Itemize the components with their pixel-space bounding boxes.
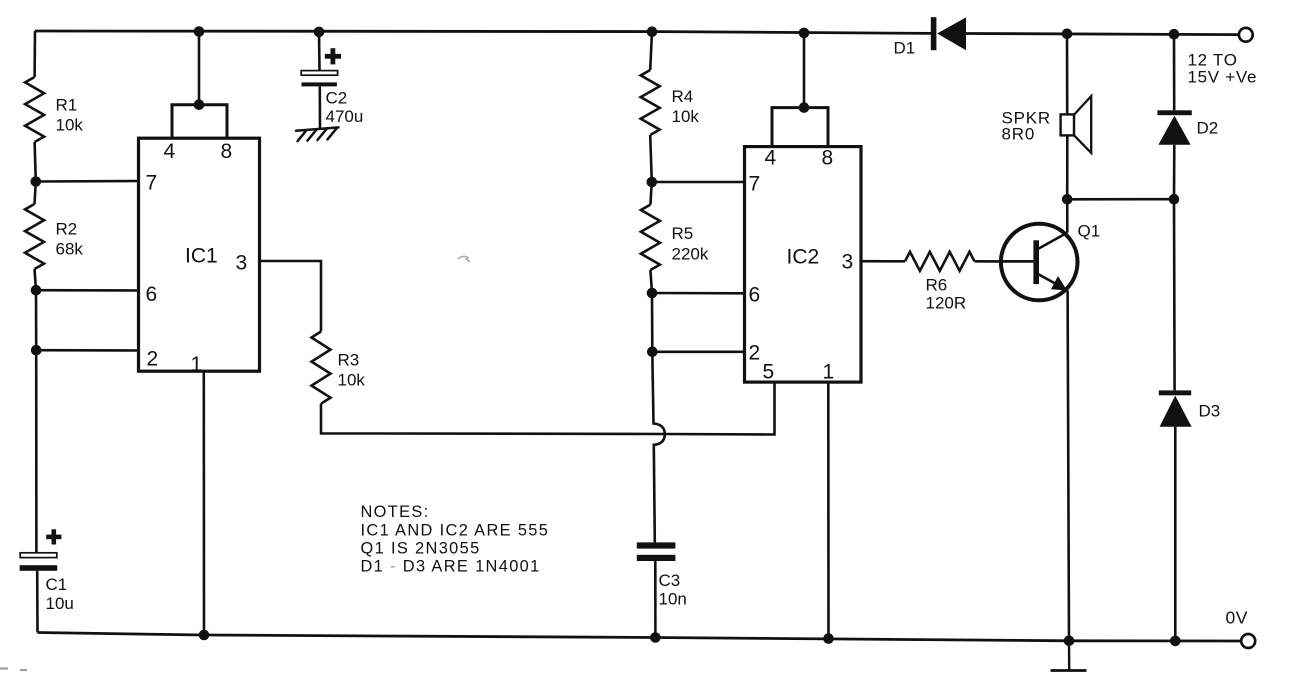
node junction IC2 bridge: [799, 102, 810, 113]
wire IC1 pin 3 output: [260, 261, 322, 332]
diode D2 (1N4001): [1157, 110, 1191, 144]
wire speaker to collector node: [1066, 136, 1069, 200]
wire IC2 pin 7: [652, 181, 745, 184]
svg-text:4: 4: [765, 147, 777, 170]
wire collector node to D2 node: [1067, 198, 1174, 201]
wire Q1 collector up: [1066, 199, 1069, 232]
wire rail to R4: [650, 32, 652, 70]
wire top supply rail (right of D1): [966, 34, 1239, 35]
svg-text:10u: 10u: [46, 594, 74, 613]
svg-text:C1: C1: [46, 575, 68, 594]
wire node pin2 down to C1: [35, 350, 38, 553]
wire IC1 pin 2: [36, 349, 139, 352]
svg-text:10n: 10n: [659, 590, 687, 609]
node junction top rail / R4: [647, 26, 658, 37]
wire top rail to IC2 bridge: [803, 33, 806, 108]
wire IC1 pin 7: [36, 180, 140, 183]
node junction D2 / wire: [1169, 194, 1180, 205]
wire IC1 pins 4-8 bridge: [172, 105, 227, 139]
svg-text:7: 7: [749, 173, 761, 196]
svg-text:2: 2: [749, 342, 761, 365]
transistor Q1 base lead: [1001, 260, 1033, 263]
svg-text:7: 7: [146, 172, 158, 195]
svg-text:IC1 AND IC2 ARE 555: IC1 AND IC2 ARE 555: [361, 522, 550, 540]
resistor R4: [641, 70, 660, 135]
wire IC2 pins 4-8 bridge: [772, 108, 828, 148]
svg-text:D1: D1: [894, 39, 916, 58]
svg-text:1: 1: [823, 361, 835, 384]
svg-text:Q1 IS 2N3055: Q1 IS 2N3055: [361, 540, 481, 558]
wire node to R2: [35, 182, 36, 205]
svg-text:68k: 68k: [56, 240, 84, 259]
node junction left / IC1 pin2: [31, 345, 42, 356]
wire rail to C2: [318, 32, 321, 71]
wire crossover hop (vertical over R3 wire): [652, 352, 665, 543]
resistor R5: [641, 205, 660, 270]
wire rail to speaker: [1066, 34, 1069, 115]
wire node to R5: [650, 182, 651, 205]
svg-text:C2: C2: [326, 89, 348, 108]
svg-text:R5: R5: [672, 224, 694, 243]
svg-text:D2: D2: [1197, 119, 1219, 138]
svg-text:D1 - D3 ARE 1N4001: D1 - D3 ARE 1N4001: [361, 558, 541, 576]
capacitor C2: [301, 71, 337, 87]
wire D2 to node: [1173, 145, 1176, 200]
node junction left / IC1 pin7: [31, 176, 42, 187]
wire R6 to Q1 base: [975, 260, 1002, 263]
transistor Q1 collector lead: [1037, 233, 1067, 250]
svg-text:470u: 470u: [326, 107, 364, 126]
node junction top rail / IC2 supply: [799, 28, 810, 39]
svg-text:D3: D3: [1199, 402, 1221, 421]
svg-text:6: 6: [749, 284, 761, 307]
svg-text:R2: R2: [56, 220, 78, 239]
wire R4 to node pin7: [650, 135, 652, 182]
wire top rail to IC1 bridge: [198, 32, 201, 105]
svg-text:0V: 0V: [1226, 608, 1248, 628]
wire top supply rail (left of D1): [35, 31, 931, 33]
svg-text:C3: C3: [659, 571, 681, 590]
resistor R6: [905, 252, 975, 271]
wire IC2 pin 6: [652, 292, 745, 295]
node junction IC2 pin1 / 0V rail: [823, 633, 834, 644]
wire 0V bottom rail: [38, 633, 1242, 642]
ground symbol (C2): [296, 127, 339, 141]
capacitor C1: [20, 553, 58, 571]
wire node pin6 to node pin2: [651, 293, 654, 352]
terminal +V supply: [1239, 28, 1253, 42]
svg-text:NOTES:: NOTES:: [361, 503, 430, 521]
speaker SPKR 8R0: [1061, 96, 1092, 153]
wire IC1 pin 6: [36, 289, 140, 292]
wire node to D3: [1173, 199, 1176, 390]
svg-text:2: 2: [147, 348, 159, 371]
wire R2 to node pin6: [35, 269, 37, 290]
scan artifact smudge: [458, 256, 470, 262]
node junction top rail / IC1 supply: [194, 26, 205, 37]
svg-text:8R0: 8R0: [1002, 125, 1036, 144]
terminal 0V: [1241, 634, 1255, 648]
transistor Q1 emitter lead with arrow: [1037, 274, 1067, 291]
node junction top rail / C2: [314, 27, 325, 38]
capacitor C1 polarity plus: [46, 535, 61, 540]
op-amp-timer IC2 555 body: [745, 147, 862, 383]
svg-text:4: 4: [164, 140, 176, 163]
wire left column top (rail to R1): [33, 31, 36, 77]
transistor Q1 (2N3055) body circle: [1001, 224, 1078, 301]
diode D1 (1N4001): [931, 17, 966, 50]
svg-text:10k: 10k: [338, 371, 366, 390]
wire D3 to 0V rail: [1174, 427, 1177, 641]
resistor R3: [312, 332, 331, 404]
node junction left / IC1 pin6: [31, 285, 42, 296]
wire C3 to 0V rail: [654, 561, 657, 638]
svg-text:5: 5: [763, 361, 775, 384]
svg-text:1: 1: [191, 353, 203, 376]
diode D3 (1N4001): [1159, 390, 1192, 426]
wire rail to D2: [1173, 34, 1176, 110]
wire node pin6 to node pin2: [35, 290, 38, 350]
wire R1 to node pin7: [35, 142, 36, 182]
wire cross to IC2 pin5: [665, 383, 775, 435]
wire IC2 pin 2: [652, 350, 745, 353]
svg-text:IC1: IC1: [185, 245, 218, 268]
node junction IC1 pin1 / 0V rail: [199, 630, 210, 641]
wire C1 to bottom rail: [36, 571, 39, 633]
svg-text:IC2: IC2: [787, 246, 820, 269]
node junction C3 / 0V rail: [650, 632, 661, 643]
wire Q1 emitter to 0V rail: [1068, 291, 1069, 641]
ground stub below 0V rail: [1051, 641, 1087, 671]
svg-text:15V +Ve: 15V +Ve: [1188, 68, 1258, 87]
svg-text:R3: R3: [338, 351, 360, 370]
svg-text:10k: 10k: [56, 116, 84, 135]
node junction D3 / 0V rail: [1170, 636, 1181, 647]
node junction Q1 emitter / 0V rail: [1064, 636, 1075, 647]
resistor R1: [25, 77, 44, 142]
node junction IC1 bridge: [194, 99, 205, 110]
svg-text:R4: R4: [672, 87, 694, 106]
node junction top rail / D2: [1169, 29, 1180, 40]
wire R3 to cross wire: [321, 404, 665, 434]
wire C2 to ground: [318, 86, 321, 128]
capacitor C3: [637, 542, 676, 561]
node junction top rail / speaker: [1062, 29, 1073, 40]
op-amp-timer IC1 555 body: [139, 138, 260, 371]
capacitor C2 polarity plus: [325, 54, 341, 59]
svg-text:120R: 120R: [926, 294, 967, 313]
scan artifact dashes bottom-left: [0, 669, 27, 671]
svg-text:R1: R1: [56, 96, 78, 115]
node junction / IC2 pin2: [647, 347, 658, 358]
svg-text:3: 3: [842, 251, 854, 274]
wire R5 to node pin6: [650, 270, 652, 293]
svg-text:8: 8: [822, 147, 834, 170]
svg-text:3: 3: [236, 252, 248, 275]
svg-text:220k: 220k: [672, 245, 709, 264]
svg-text:R6: R6: [926, 276, 948, 295]
svg-text:6: 6: [146, 283, 158, 306]
node junction speaker / Q1 collector: [1062, 194, 1073, 205]
wire IC2 pin 1 to 0V rail: [827, 382, 830, 639]
notes text block: [361, 503, 550, 576]
resistor R2: [25, 204, 44, 269]
svg-text:Q1: Q1: [1078, 222, 1101, 241]
transistor Q1 base bar: [1033, 240, 1039, 284]
svg-text:8: 8: [221, 140, 233, 163]
node junction R4-R5 / IC2 pin7: [647, 177, 658, 188]
svg-text:10k: 10k: [672, 107, 700, 126]
wire IC2 pin 3 to R6: [861, 260, 905, 263]
wire IC1 pin 1 to 0V rail: [203, 371, 206, 635]
node junction R5 / IC2 pin6: [647, 288, 658, 299]
